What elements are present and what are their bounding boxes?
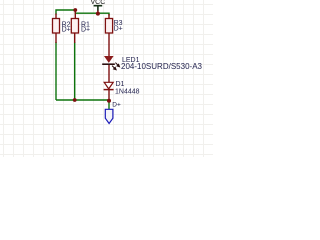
svg-text:D1: D1 (116, 81, 125, 88)
svg-text:D+: D+ (112, 101, 121, 108)
svg-text:1N4448: 1N4448 (115, 89, 140, 96)
svg-text:D+: D+ (114, 26, 123, 33)
svg-text:204-10SURD/S530-A3: 204-10SURD/S530-A3 (121, 62, 202, 71)
svg-text:VCC: VCC (91, 0, 106, 6)
svg-text:D+: D+ (81, 27, 90, 34)
svg-text:D+: D+ (62, 27, 71, 34)
